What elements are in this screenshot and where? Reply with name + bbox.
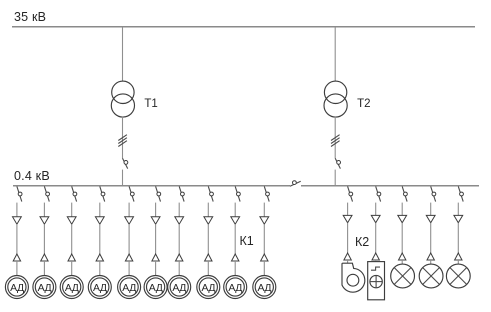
circuit breaker right feeder 2 <box>376 186 381 201</box>
svg-text:АД: АД <box>228 282 242 294</box>
wire feeder 6 <box>155 261 157 276</box>
svg-text:35 кВ: 35 кВ <box>14 10 46 24</box>
wire feeder 9 <box>234 261 236 276</box>
connector pin (down triangle) feeder 9 <box>231 217 240 224</box>
bus 0.4 kV right section <box>301 185 479 187</box>
svg-text:К2: К2 <box>355 235 369 249</box>
wire feeder 10 <box>263 261 265 276</box>
wire transformer Т2 secondary <box>334 116 336 158</box>
motor M6 (АД) <box>144 276 167 299</box>
connector socket (up triangle) feeder 9 <box>232 254 239 261</box>
connector socket (up triangle) feeder 4 <box>96 254 103 261</box>
connector socket (up triangle) feeder 5 <box>125 254 132 261</box>
wire right feeder 3 <box>401 203 403 216</box>
connector pin (down triangle) feeder 10 <box>260 217 269 224</box>
svg-text:АД: АД <box>149 282 163 294</box>
connector socket (up triangle) feeder 6 <box>152 254 159 261</box>
wire feeder 3 <box>71 261 73 276</box>
connector socket (up triangle) right feeder 1 <box>344 253 351 260</box>
wire right feeder 2 <box>375 260 377 262</box>
wire right feeder 1 <box>347 223 349 253</box>
connector pin (down triangle) right feeder 1 <box>343 215 352 222</box>
svg-text:АД: АД <box>172 282 186 294</box>
circuit breaker feeder 7 <box>179 186 184 201</box>
motor M3 (АД) <box>60 276 83 299</box>
wire feeder 10 <box>263 203 265 217</box>
motor M5 (АД) <box>118 276 141 299</box>
wire feeder 7 <box>178 261 180 276</box>
connector pin (down triangle) feeder 3 <box>67 217 76 224</box>
circuit breaker feeder 6 <box>156 186 161 201</box>
wire right feeder 2 <box>375 223 377 253</box>
bus 35 kV <box>12 26 475 28</box>
svg-text:АД: АД <box>65 282 79 294</box>
connector socket (up triangle) feeder 8 <box>205 254 212 261</box>
connector pin (down triangle) right feeder 4 <box>426 215 435 222</box>
wire right feeder 1 <box>347 203 349 216</box>
connector pin (down triangle) feeder 7 <box>175 217 184 224</box>
lamp 1 <box>391 264 415 288</box>
wire feeder 3 <box>71 224 73 254</box>
circuit breaker right feeder 3 <box>402 186 407 201</box>
svg-text:К1: К1 <box>240 234 254 248</box>
wire feeder 7 <box>178 203 180 217</box>
wire feeder 4 <box>99 224 101 254</box>
cable marking (3 slashes) on Т1 feeder <box>118 135 127 147</box>
wire right feeder 4 <box>430 260 432 264</box>
wire feeder 1 <box>16 224 18 254</box>
connector socket (up triangle) right feeder 5 <box>455 253 462 260</box>
wire feeder 2 <box>43 261 45 276</box>
connector socket (up triangle) right feeder 3 <box>399 253 406 260</box>
connector socket (up triangle) right feeder 2 <box>372 253 379 260</box>
transformer Т2 <box>324 81 347 117</box>
connector pin (down triangle) feeder 1 <box>13 217 22 224</box>
wire from 35 kV bus to transformer Т1 <box>122 27 124 82</box>
motor M7 (АД) <box>168 276 191 299</box>
svg-text:АД: АД <box>257 282 271 294</box>
connector pin (down triangle) right feeder 5 <box>454 215 463 222</box>
circuit breaker right feeder 1 <box>348 186 353 201</box>
bus section disconnector <box>290 181 301 186</box>
svg-text:АД: АД <box>93 282 107 294</box>
wire feeder 8 <box>207 203 209 217</box>
wire feeder 3 <box>71 203 73 217</box>
motor M8 (АД) <box>197 276 220 299</box>
wire feeder 1 <box>16 203 18 217</box>
wire feeder 7 <box>178 224 180 254</box>
wire right feeder 3 <box>401 260 403 264</box>
connector pin (down triangle) feeder 6 <box>151 217 160 224</box>
wire feeder 6 <box>155 203 157 217</box>
circuit breaker feeder 9 <box>235 186 240 201</box>
circuit breaker right feeder 5 <box>458 186 463 201</box>
svg-text:Т2: Т2 <box>357 98 370 110</box>
wire right feeder 4 <box>430 223 432 253</box>
wire feeder 10 <box>263 224 265 254</box>
connector pin (down triangle) feeder 8 <box>204 217 213 224</box>
svg-text:АД: АД <box>122 282 136 294</box>
wire from 35 kV bus to transformer Т2 <box>334 27 336 82</box>
wire right feeder 5 <box>457 203 459 216</box>
circuit breaker feeder 1 <box>17 186 22 201</box>
wire feeder 2 <box>43 203 45 217</box>
wire right feeder 1 <box>347 260 349 263</box>
transformer Т1 <box>111 81 134 117</box>
circuit breaker right feeder 4 <box>431 186 436 201</box>
wire right feeder 4 <box>430 203 432 216</box>
connector socket (up triangle) feeder 3 <box>68 254 75 261</box>
svg-text:0.4 кВ: 0.4 кВ <box>14 169 50 183</box>
lamp 3 <box>446 264 470 288</box>
wire breaker to 0.4 kV bus (Т1) <box>122 170 124 186</box>
svg-text:Т1: Т1 <box>144 98 157 110</box>
circuit breaker feeder 2 <box>44 186 49 201</box>
wire right feeder 5 <box>457 223 459 253</box>
connector socket (up triangle) feeder 10 <box>261 254 268 261</box>
wire feeder 8 <box>207 261 209 276</box>
wire feeder 2 <box>43 224 45 254</box>
circuit breaker feeder 10 <box>264 186 269 201</box>
svg-text:АД: АД <box>201 282 215 294</box>
circuit breaker feeder 3 <box>72 186 77 201</box>
motor M1 (АД) <box>5 276 28 299</box>
connector socket (up triangle) right feeder 4 <box>427 253 434 260</box>
wire feeder 4 <box>99 203 101 217</box>
wire right feeder 2 <box>375 203 377 216</box>
wire feeder 5 <box>128 224 130 254</box>
motor M9 (АД) <box>224 276 247 299</box>
wire feeder 9 <box>234 224 236 254</box>
connector pin (down triangle) feeder 4 <box>95 217 104 224</box>
circuit breaker on Т1 low side <box>123 158 128 168</box>
circuit breaker feeder 5 <box>129 186 134 201</box>
connector socket (up triangle) feeder 7 <box>176 254 183 261</box>
wire right feeder 5 <box>457 260 459 264</box>
cable marking (3 slashes) on Т2 feeder <box>331 135 340 147</box>
wire feeder 6 <box>155 224 157 254</box>
heater symbol zigzag <box>371 267 380 270</box>
heating element (circle with cross) <box>370 275 382 287</box>
wire feeder 1 <box>16 261 18 276</box>
heater device box <box>368 262 385 300</box>
motor M2 (АД) <box>33 276 56 299</box>
svg-text:АД: АД <box>10 282 24 294</box>
circuit breaker feeder 8 <box>208 186 213 201</box>
circuit breaker feeder 4 <box>100 186 105 201</box>
connector pin (down triangle) feeder 5 <box>125 217 134 224</box>
connector pin (down triangle) right feeder 2 <box>371 215 380 222</box>
connector socket (up triangle) feeder 2 <box>41 254 48 261</box>
connector pin (down triangle) feeder 2 <box>40 217 49 224</box>
wire feeder 5 <box>128 261 130 276</box>
svg-text:АД: АД <box>38 282 52 294</box>
wire right feeder 3 <box>401 223 403 253</box>
wire transformer Т1 secondary <box>122 116 124 158</box>
wire feeder 8 <box>207 224 209 254</box>
bus 0.4 kV left section <box>13 185 290 187</box>
connector socket (up triangle) feeder 1 <box>13 254 20 261</box>
wire feeder 5 <box>128 203 130 217</box>
motor M10 (АД) <box>253 276 276 299</box>
fan (centrifugal ventilator) <box>342 263 365 292</box>
lamp 2 <box>419 264 443 288</box>
connector pin (down triangle) right feeder 3 <box>398 215 407 222</box>
motor M4 (АД) <box>88 276 111 299</box>
wire feeder 4 <box>99 261 101 276</box>
wire breaker to 0.4 kV bus (Т2) <box>334 170 336 186</box>
circuit breaker on Т2 low side <box>335 158 340 168</box>
wire feeder 9 <box>234 203 236 217</box>
